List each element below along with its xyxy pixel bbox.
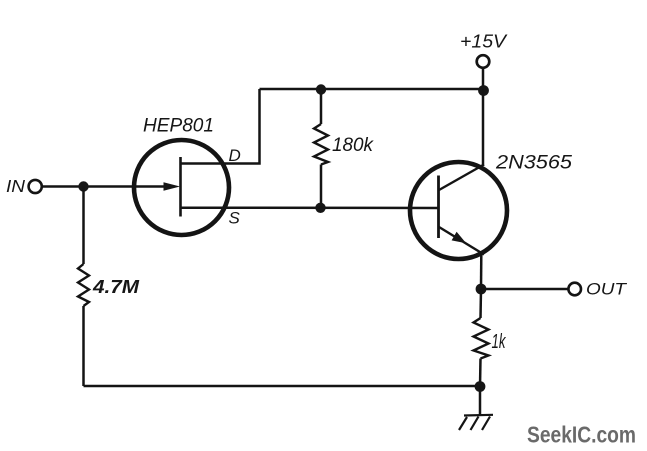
svg-text:SeekIC.com: SeekIC.com: [527, 421, 636, 447]
OUT terminal: [568, 283, 581, 296]
transistor Q2 2N3565 BJT: [410, 162, 507, 259]
svg-text:OUT: OUT: [586, 280, 628, 299]
node junction: +15V to rail: [478, 85, 489, 96]
wire collector drop: [482, 89, 485, 166]
resistor R3 1k: [474, 289, 489, 387]
wire source rail (S to base): [181, 206, 439, 209]
node junction: input: [78, 181, 88, 191]
svg-text:IN: IN: [6, 176, 25, 196]
node junction: ground: [475, 381, 486, 392]
wire drain lead up to rail: [181, 89, 260, 164]
wire top rail: [260, 88, 485, 91]
wire ground stub: [479, 387, 482, 416]
svg-text:4.7M: 4.7M: [92, 277, 140, 297]
resistor R2 4.7M: [78, 187, 89, 387]
wire output: [481, 288, 569, 291]
ground symbol: [459, 415, 493, 430]
node junction: 180k top: [316, 84, 326, 94]
wire bottom rail: [84, 385, 481, 388]
svg-text:2N3565: 2N3565: [495, 152, 572, 174]
svg-text:180k: 180k: [332, 135, 374, 156]
svg-text:+15V: +15V: [460, 32, 508, 52]
svg-text:D: D: [229, 146, 241, 165]
wire emitter drop: [480, 254, 483, 289]
svg-text:HEP801: HEP801: [143, 115, 214, 137]
resistor R1 180k: [314, 90, 328, 208]
+15V supply terminal: [477, 55, 490, 90]
node junction: 180k bottom: [315, 203, 325, 213]
svg-text:S: S: [229, 209, 241, 228]
node junction: output: [476, 284, 487, 295]
svg-text:1k: 1k: [492, 331, 507, 353]
transistor Q1 HEP801 JFET: [42, 140, 229, 235]
IN terminal: [29, 180, 42, 193]
